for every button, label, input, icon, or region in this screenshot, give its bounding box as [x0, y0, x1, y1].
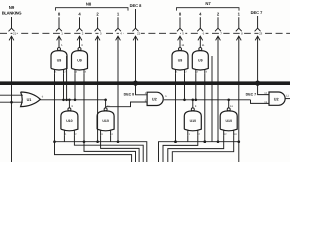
connector pin 7 number [219, 31, 223, 35]
connector pin 2 arrowhead below line [77, 36, 82, 40]
wire L1 U10a-R [74, 136, 143, 162]
svg-text:U10: U10 [66, 119, 72, 123]
wire R4 to U10d-R [172, 136, 233, 162]
junction U10d out [227, 99, 230, 102]
junction pinD stack [96, 140, 99, 143]
wire U10c out up [192, 100, 194, 108]
wire U2b lower input jog [251, 100, 270, 104]
junction U10c out [192, 99, 195, 102]
wire U9a right input down [63, 73, 65, 100]
svg-text:U10: U10 [225, 119, 231, 123]
connector pin 21 number [12, 31, 16, 35]
wire N7.1 vertical [238, 36, 240, 162]
or gate U1 [21, 92, 41, 107]
and gate U2 a [147, 92, 163, 105]
connector pin 8 arrowhead below line [236, 36, 241, 40]
wire DEC8 bus to U2a [136, 85, 148, 95]
connector pin 5 wire (upper stub) [179, 17, 181, 28]
connector pin 5 arrowhead below line [178, 36, 183, 40]
junction U9b-L line [74, 99, 77, 102]
connector pin 4 arrowhead above line [115, 28, 121, 31]
junction U10a out [68, 99, 71, 102]
connector pin 21 arrowhead above line [9, 28, 15, 31]
junction U9c-L... stack [174, 140, 177, 143]
connector pin 2 number [80, 31, 84, 35]
nor gate U9 d [192, 51, 208, 70]
wire U1 input lower [0, 101, 23, 103]
connector pin 2 arrowhead above line [77, 28, 83, 31]
connector pin 7 arrowhead above line [215, 28, 221, 31]
svg-text:22: 22 [137, 32, 141, 36]
wire N7.2 vertical [217, 36, 219, 142]
svg-text:U2: U2 [152, 98, 157, 102]
wire DEC8 to bus [135, 36, 137, 83]
svg-text:N7: N7 [205, 1, 211, 6]
nor gate U9 c [172, 51, 188, 70]
connector pin 23 wire (upper stub) [257, 16, 259, 28]
wire U2a output line [164, 99, 251, 101]
junction DEC7 bus [255, 81, 260, 86]
wire U2a lower input [106, 102, 148, 107]
svg-text:U10: U10 [190, 119, 196, 123]
wire mid vertical right [211, 56, 213, 142]
connector pin 3 number [99, 31, 103, 35]
wire U10b out up [105, 100, 107, 108]
svg-text:U9: U9 [77, 58, 82, 62]
junction mid-left line [65, 99, 68, 102]
connector pin 6 number [201, 31, 205, 35]
nor gate U10 d [220, 111, 237, 131]
wire N7.4 to U9-4 [199, 36, 201, 47]
connector pin 3 wire (upper stub) [97, 17, 99, 28]
svg-text:U9: U9 [198, 58, 203, 62]
and gate U2 b [269, 92, 285, 105]
connector pin 4 number [119, 31, 123, 35]
svg-text:U9: U9 [57, 58, 62, 62]
svg-text:U9: U9 [178, 58, 183, 62]
wire U9b right input down [84, 73, 136, 162]
junction pinI stack [217, 140, 220, 143]
junction U10b out [104, 99, 107, 102]
junction U9d-R stack [204, 140, 207, 143]
bracket N8 [56, 8, 129, 11]
wire N7.8 to U9-3 [179, 36, 181, 47]
wire U9d right input down [204, 73, 206, 141]
wire stack H1 [55, 142, 147, 162]
wire U10a-L stub to H1 [63, 136, 65, 142]
connector pin 5 number [181, 31, 185, 35]
wire L2 U10b-L [101, 136, 140, 162]
wire U1 input upper [0, 94, 23, 96]
wire stack H-R1 [159, 142, 239, 162]
wire U9c left input down [175, 73, 177, 141]
svg-text:DEC 7: DEC 7 [246, 92, 257, 96]
connector pin 5 arrowhead above line [177, 28, 183, 31]
wire N8.2 vertical [97, 36, 99, 142]
wire N8.8 to U9-1 [58, 36, 60, 47]
connector pin 22 number [136, 31, 140, 35]
nor gate U9 a [51, 51, 67, 70]
connector pin 7 arrowhead below line [216, 36, 221, 40]
svg-text:DEC 8: DEC 8 [124, 92, 135, 96]
wire U9b left input down [74, 73, 76, 100]
wire U1 output line [40, 99, 106, 101]
wire U10b-R stub to H1 [110, 136, 112, 142]
connector pin 4 arrowhead below line [116, 36, 121, 40]
nor gate U10 b [97, 111, 114, 131]
connector pin 1 arrowhead above line [56, 28, 62, 31]
junction U9d-L line [195, 99, 198, 102]
wire mid vertical left [66, 56, 68, 100]
connector pin 8 wire (upper stub) [238, 17, 240, 28]
svg-text:U1: U1 [27, 98, 32, 102]
wire N8.1 vertical [117, 36, 119, 142]
wire U10a out up [68, 100, 70, 108]
junction pinE stack [117, 140, 120, 143]
nor gate U10 a [61, 111, 78, 131]
connector pin 6 wire (upper stub) [199, 17, 201, 28]
connector pin 23 arrowhead above line [255, 28, 261, 31]
connector pin 6 arrowhead below line [198, 36, 203, 40]
junction U9c-R line [183, 99, 186, 102]
wire N8.4 to U9-2 [79, 36, 81, 47]
blanking bus (thick) [0, 81, 290, 85]
svg-text:23: 23 [259, 32, 263, 36]
connector pin 22 arrowhead below line [133, 36, 138, 40]
junction N9/U1 input [10, 101, 13, 104]
wire U9d left input down [195, 73, 197, 100]
connector pin 21 wire (upper stub) [11, 17, 13, 28]
svg-text:DEC 8: DEC 8 [130, 3, 143, 8]
wire R2 to U10c-R [163, 136, 198, 162]
svg-text:N9: N9 [9, 5, 15, 10]
wire U10d out up [228, 100, 230, 108]
wire U10c-L stub to H-R1 [187, 136, 189, 142]
junction DEC8 bus [133, 81, 138, 86]
connector pin 8 number [240, 31, 244, 35]
connector pin 21 arrowhead below line [9, 36, 14, 40]
svg-text:DEC 7: DEC 7 [251, 10, 264, 15]
junction U9a-L stack [53, 140, 56, 143]
nor gate U10 c [184, 111, 201, 131]
nor gate U9 b [72, 51, 88, 70]
wire R3 to U10d-L [168, 136, 224, 162]
connector pin 6 arrowhead above line [197, 28, 203, 31]
wire U9c right input down [184, 73, 186, 100]
wire U2b output [285, 98, 290, 100]
wire U9a left input down [55, 73, 132, 162]
junction pinJ stack [238, 140, 241, 143]
svg-text:N8: N8 [86, 2, 92, 7]
svg-text:U2: U2 [274, 97, 279, 101]
bracket N7 [177, 8, 240, 11]
connector pin 22 arrowhead above line [133, 28, 139, 31]
connector pin 7 wire (upper stub) [217, 17, 219, 28]
svg-text:BLANKING: BLANKING [2, 11, 22, 16]
junction U9d-R stack [204, 140, 207, 143]
connector pin 8 arrowhead above line [236, 28, 242, 31]
connector pin 1 wire (upper stub) [58, 17, 60, 28]
connector pin 2 wire (upper stub) [79, 17, 81, 28]
connector pin 23 number [259, 31, 263, 35]
connector pin 22 wire (upper stub) [135, 9, 137, 28]
junction U9b-R crossing stack [83, 140, 86, 143]
connector pin 4 wire (upper stub) [117, 17, 119, 28]
connector pin 23 arrowhead below line [255, 36, 260, 40]
junction U9a-R line [62, 99, 65, 102]
connector pin 1 arrowhead below line [57, 36, 62, 40]
edge connector boundary (dashed) [0, 32, 290, 34]
junction U9c-L stack [174, 140, 177, 143]
connector pin 3 arrowhead below line [95, 36, 100, 40]
svg-text:U10: U10 [102, 119, 108, 123]
wire DEC7 to bus [257, 36, 259, 83]
wire DEC7 bus to U2b [258, 85, 269, 95]
connector pin 1 number [60, 31, 64, 35]
wire N9 blanking vertical [11, 36, 13, 162]
svg-text:21: 21 [13, 32, 17, 36]
connector pin 3 arrowhead above line [95, 28, 101, 31]
